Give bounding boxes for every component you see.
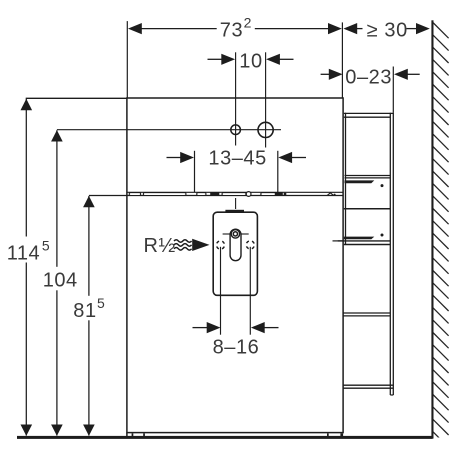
dim 81.5: arrow up — [83, 196, 95, 207]
side unit pin dot 2 — [381, 184, 384, 187]
mixer crosshair right — [241, 233, 249, 235]
mixer slot capsule — [230, 229, 241, 261]
text mask 114.5 — [5, 237, 49, 263]
dim 10: arrow right — [266, 54, 280, 65]
module seam lower line / 81.5 reference line — [89, 195, 343, 197]
dim 73: line left segment — [141, 28, 217, 30]
side unit board 5 — [343, 312, 390, 314]
dim 114.5: arrow up — [21, 99, 33, 110]
seam dot H — [284, 193, 287, 196]
wall line — [431, 20, 433, 438]
dim 10: line right tail — [279, 58, 294, 60]
dim 13-45: arrow right — [278, 152, 292, 163]
seam clip C — [197, 193, 206, 196]
dim 0-23: arrow left — [329, 69, 343, 80]
dim 0-23: extension line right — [392, 67, 394, 113]
side unit board 2 — [345, 175, 391, 177]
svg-text:10: 10 — [239, 51, 262, 73]
dim 0-23: line right tail — [407, 73, 420, 75]
dim 13-45: extension line right — [277, 151, 279, 192]
dim 10: arrow left — [221, 54, 235, 65]
centerline small circle vertical — [235, 52, 237, 145]
dim 8-16: line left tail — [193, 327, 209, 329]
dim 81.5: vertical line — [88, 196, 90, 436]
side unit board 3 — [344, 208, 391, 210]
floor line — [17, 436, 433, 439]
seam grommet — [246, 192, 251, 197]
dim >=30: line right stub — [406, 28, 416, 30]
water supply pipe right (large circle) — [258, 122, 273, 137]
seam clip E — [222, 193, 246, 196]
seam clip B — [143, 193, 186, 196]
svg-text:5: 5 — [97, 295, 105, 311]
module left edge to floor — [126, 433, 128, 437]
side unit board 4 — [338, 240, 391, 242]
svg-text:73: 73 — [220, 20, 243, 42]
plinth corner block right — [340, 433, 343, 436]
dim 73: extension line left — [126, 21, 128, 98]
seam angled mark — [327, 193, 333, 196]
dim 104: arrow up — [51, 130, 63, 141]
dim 13-45: line right tail — [291, 157, 306, 159]
centerline large circle vertical — [265, 52, 267, 147]
supply hole left (dashed circle) — [216, 241, 224, 249]
side unit front edge — [345, 113, 347, 245]
side unit bracket line — [333, 240, 344, 242]
water supply pipe left (small circle) — [231, 125, 241, 135]
svg-text:114: 114 — [7, 243, 41, 265]
function box top tab — [225, 210, 244, 213]
dim 114.5: vertical line — [25, 99, 27, 436]
dim 8-16: line right tail — [264, 327, 279, 329]
function box — [213, 212, 257, 295]
seam block G — [276, 192, 283, 195]
side unit top board — [344, 112, 394, 114]
mixer outlet outer circle — [231, 230, 239, 238]
side unit back panel inner line — [389, 113, 391, 395]
centerline horizontal through pipes / 104 reference line — [57, 129, 281, 131]
dim 73: arrow right — [328, 23, 342, 34]
dim 73 / 0-23: extension line right — [341, 22, 343, 98]
plinth divider left B — [143, 433, 145, 436]
dim 10: line left tail — [208, 58, 223, 60]
module seam upper line — [127, 191, 343, 193]
dim 104: arrow down — [51, 425, 63, 436]
water inlet wave symbol — [174, 240, 192, 243]
side unit gap shadow 2 — [345, 180, 375, 183]
mixer outlet inner circle — [233, 232, 237, 236]
water inlet arrow — [192, 239, 209, 251]
dim 104: vertical line — [56, 130, 58, 435]
plinth divider left A — [132, 433, 134, 436]
seam clip F — [261, 193, 276, 196]
side unit back panel outer line — [392, 113, 394, 395]
side unit gap shadow 4 — [344, 237, 375, 240]
svg-text:2: 2 — [244, 14, 252, 30]
seam clip A — [129, 193, 141, 196]
dim 8-16: arrow left — [207, 322, 221, 333]
svg-text:104: 104 — [43, 269, 78, 291]
svg-text:0–23: 0–23 — [345, 67, 392, 89]
dim 114.5: reference line — [26, 97, 127, 99]
dim 114.5: arrow down — [21, 425, 33, 436]
dim 73: arrow left — [128, 23, 142, 34]
dim 0-23: arrow right — [394, 69, 408, 80]
dim >=30: line left stub — [357, 28, 363, 30]
dim 0-23: line left tail — [321, 73, 331, 75]
wall hatching — [432, 22, 448, 447]
svg-text:8–16: 8–16 — [213, 336, 260, 358]
side unit pin dot 4 — [381, 234, 384, 237]
dim 13-45: arrow left — [180, 152, 194, 163]
svg-text:R½: R½ — [144, 235, 176, 257]
sanitary module body — [127, 98, 343, 433]
seam mark dot — [334, 194, 336, 196]
dim 13-45: extension line left — [194, 151, 196, 192]
svg-text:≥ 30: ≥ 30 — [367, 20, 408, 42]
function box centerline vertical (dashed) — [235, 198, 237, 274]
dim 73: line right segment — [255, 28, 330, 30]
side unit bottom board — [343, 384, 393, 386]
mixer crosshair left — [223, 233, 231, 235]
plinth divider right — [327, 433, 329, 436]
seam block D — [210, 192, 219, 195]
dim >=30: arrow right — [416, 23, 430, 34]
dim 13-45: line left tail — [167, 157, 182, 159]
svg-text:5: 5 — [42, 238, 50, 254]
text mask 81.5 — [71, 296, 105, 321]
dim 81.5: arrow down — [83, 425, 95, 436]
side unit back panel foot — [390, 394, 393, 396]
svg-text:13–45: 13–45 — [208, 148, 266, 170]
extension line supply left — [220, 247, 222, 335]
svg-text:81: 81 — [73, 300, 96, 322]
dim >=30: arrow left — [343, 23, 357, 34]
dim 8-16: arrow right — [251, 322, 265, 333]
extension line supply right — [249, 247, 251, 335]
supply hole right (dashed circle) — [246, 241, 254, 249]
text mask 104 — [41, 267, 77, 291]
